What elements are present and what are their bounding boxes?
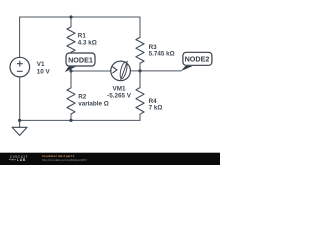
wire R2 top lead bbox=[70, 71, 72, 88]
svg-text:V1: V1 bbox=[37, 61, 45, 68]
wire R3 bottom lead bbox=[139, 63, 141, 71]
ground bbox=[12, 127, 27, 135]
svg-text:NODE1: NODE1 bbox=[68, 55, 93, 64]
svg-text:LAB: LAB bbox=[17, 158, 26, 162]
voltage source V1 bbox=[10, 57, 30, 77]
wire R3 top lead bbox=[139, 17, 141, 37]
junction dot node A (NODE1 net) bbox=[69, 69, 72, 72]
svg-text:5.745 kΩ: 5.745 kΩ bbox=[149, 51, 175, 58]
svg-text:7 kΩ: 7 kΩ bbox=[149, 105, 163, 112]
wire R1 top lead bbox=[70, 17, 72, 27]
svg-text:10 V: 10 V bbox=[37, 69, 51, 76]
junction dot node B (NODE2 net) bbox=[138, 69, 141, 72]
svg-text:R2: R2 bbox=[78, 93, 87, 100]
node NODE1 flag box bbox=[66, 53, 95, 66]
svg-text:http://circuitlab.com/c/e6t6dp: http://circuitlab.com/c/e6t6dpc24857 bbox=[42, 158, 87, 162]
node NODE1 flag tail bbox=[65, 67, 76, 73]
junction dot bottom R2 bbox=[69, 119, 72, 122]
wire node2 horizontal bbox=[130, 70, 181, 72]
wire bottom rail bbox=[20, 119, 140, 121]
wire node1 horizontal bbox=[71, 70, 111, 72]
wire top rail bbox=[20, 16, 140, 18]
svg-text:NODE2: NODE2 bbox=[185, 55, 210, 64]
footer bar bbox=[0, 153, 220, 165]
resistor R2 bbox=[67, 88, 75, 114]
svg-text:4.3 kΩ: 4.3 kΩ bbox=[78, 40, 97, 47]
svg-text:-5.265 V: -5.265 V bbox=[107, 93, 132, 100]
junction dot top R1 bbox=[69, 15, 72, 18]
resistor R3 bbox=[136, 37, 144, 63]
wire R4 top lead bbox=[139, 71, 141, 88]
CircuitLab logo zigzag bbox=[9, 159, 16, 161]
voltmeter VM1 bbox=[111, 61, 131, 81]
junction dot ground bbox=[18, 119, 21, 122]
svg-text:variable Ω: variable Ω bbox=[78, 101, 109, 108]
svg-text:VM1: VM1 bbox=[113, 86, 126, 93]
resistor R4 bbox=[136, 88, 144, 115]
wire R2 bottom lead bbox=[70, 114, 72, 120]
wire R4 bottom lead bbox=[139, 114, 141, 120]
resistor R1 bbox=[67, 27, 75, 52]
svg-text:R1: R1 bbox=[78, 33, 87, 40]
node NODE2 flag box bbox=[183, 52, 212, 65]
wire left column upper bbox=[19, 17, 21, 57]
node NODE2 flag tail bbox=[181, 66, 193, 71]
wire R1 bottom lead bbox=[70, 52, 72, 71]
wire left column lower bbox=[19, 77, 21, 121]
wire ground stub bbox=[19, 120, 21, 127]
